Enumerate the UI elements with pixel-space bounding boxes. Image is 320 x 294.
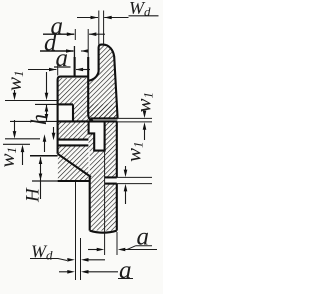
dimension w1 right1: extension y118.4: [118, 117, 152, 119]
hatch right column upper segment: [105, 122, 117, 177]
dimension Wd bottom: left arrowhead: [67, 258, 75, 262]
outline: upper part bottom edge y118.4: [91, 117, 118, 119]
extension x75.5 downward: [75, 182, 77, 280]
outline: long joint line y121.4: [58, 120, 118, 122]
dimension Wd top: dim line: [77, 17, 98, 19]
outline: groove top edge y104: [58, 103, 73, 105]
dimension d: extension x74.3: [73, 46, 75, 57]
dimension w1 right1: extension y121.9: [117, 121, 152, 123]
dimension w1 left2: lower up-arrow at x22.5: [21, 145, 25, 153]
outline: right gap bottom edge y183.6: [105, 183, 117, 185]
dimension a row3: left tick: [57, 64, 59, 76]
dimension w1 right2: lower up arrow: [124, 184, 128, 192]
dimension a bottom2: right arrowhead with tail: [81, 270, 89, 274]
dimension w1 left2: upper down-arrow at x14.5: [14, 120, 16, 132]
extension x104.6 downward: [104, 151, 106, 255]
svg-text:h: h: [26, 114, 51, 125]
dimension d: dim line: [40, 50, 74, 52]
outline: slope chamfer: [58, 154, 91, 177]
outline: step edge y139.6: [58, 139, 89, 141]
dimension a bottom1: dim line: [88, 249, 98, 251]
hatch lower block above slope: [58, 145, 89, 181]
hatch mid block of lower part: [58, 122, 88, 140]
outline: thin wall at x88: [88, 57, 93, 121]
dimension w1 left2: inner up-arrow at x44.5: [43, 134, 47, 142]
label Wd top underline: [129, 15, 159, 17]
dimension w1 right1: lower up arrow: [143, 122, 147, 130]
dimension w1 left2: extension y144.3: [3, 143, 30, 145]
dimension h: inside arrows at x46.5: [46, 105, 48, 121]
dimension a row3: dim line: [28, 69, 57, 71]
outline: bottom edge y181: [58, 180, 90, 182]
outline: bottom column left edge: [89, 177, 91, 231]
dimension w1 left2: extension y138.8: [5, 138, 40, 140]
outline: right gap top edge y177.4: [105, 176, 117, 178]
label a bottom1 leader: [127, 246, 136, 250]
hatch right column lower segment: [105, 184, 117, 231]
svg-text:Wd: Wd: [31, 242, 53, 263]
extension line x88 above wall: [87, 29, 89, 57]
svg-text:w1: w1: [122, 141, 146, 162]
outline: right column edge lower: [116, 184, 118, 231]
dimension Wd top: left arrowhead: [91, 16, 99, 20]
svg-text:w1: w1: [2, 70, 26, 91]
extension of y104.4 to the left: [35, 103, 58, 105]
dimension a row1: left arrowhead: [67, 32, 75, 36]
dimension H: dim line with inside arrows: [40, 157, 42, 199]
outline: groove right wall x73: [72, 104, 74, 121]
hatch upper part lower-left lobe: [73, 104, 88, 121]
dimension a bottom2: dim line: [59, 271, 68, 273]
dimension Wd top: right extension line: [103, 11, 105, 45]
hatch notch right of mid block: [89, 133, 95, 150]
dimension d: right arrowhead with tail: [81, 49, 89, 53]
dimension w1 right2: upper down arrow: [125, 166, 127, 171]
outline: step edge y145.4: [58, 144, 89, 146]
label Wd bottom underline and leader: [30, 259, 67, 261]
dimension a row1: left tick: [74, 29, 76, 40]
dimension Wd top: left extension line: [98, 11, 100, 45]
hatch bottom column left segment: [90, 151, 105, 231]
dimension d: left arrowhead: [66, 49, 74, 53]
svg-text:a: a: [119, 257, 132, 284]
svg-text:w1: w1: [132, 92, 156, 113]
dimension a bottom2: left arrowhead: [67, 270, 75, 274]
dimension Wd top: right arrowhead: [104, 16, 112, 20]
dimension a row1: dim line: [43, 33, 74, 35]
label a row3 underline: [54, 66, 71, 68]
dimension w1 right2: extension y183.6: [117, 183, 152, 185]
dimension Wd top: right arrow tail: [104, 17, 128, 19]
outline: ledge line y155.8: [30, 155, 58, 157]
outline: bottom arc: [90, 231, 117, 233]
svg-text:w1: w1: [0, 147, 19, 168]
extension x80.5 downward: [80, 238, 82, 280]
label a bottom1 underline: [136, 245, 153, 247]
svg-text:a: a: [56, 45, 69, 72]
svg-text:H: H: [23, 187, 44, 203]
extension x117 downward: [116, 232, 118, 255]
dimension w1 left2: inner down-arrow at x53.5: [53, 127, 55, 134]
extension of y181 to the left: [32, 180, 58, 182]
dimension a row3: left arrowhead: [49, 68, 57, 72]
outline: thin lip wall at x74.6: [74, 57, 76, 77]
dimension Wd bottom: right arrowhead with tail: [81, 258, 89, 262]
svg-text:a: a: [137, 224, 150, 251]
hatch upper-left block of lower part: [58, 78, 88, 104]
outline: top column profile: [88, 45, 117, 119]
dimension a row3: right arrowhead with tail: [76, 68, 84, 72]
dimension w1 left1: label leader arrow: [14, 90, 16, 94]
hatch upper part bottom band: [88, 104, 117, 118]
dimension a row1: right arrowhead with tail: [89, 32, 97, 36]
dimension w1 right1: upper down arrow: [143, 111, 147, 119]
outline: top edge of lower part: [58, 77, 89, 154]
extension line above lip (row2 left tick upper): [74, 46, 76, 57]
outline: pocket below joint: [89, 122, 105, 151]
label a bottom2 underline: [118, 278, 133, 280]
dimension w1 right2: extension y177.4: [117, 176, 152, 178]
extension y121.4 to the left: [10, 120, 58, 122]
outline: right column edge upper: [116, 121, 118, 177]
hatch top column of upper part: [88, 45, 117, 119]
dimension w1 left1: down arrow at x46.5: [46, 72, 48, 94]
dimension w1 left1: upper extension y100.5: [5, 100, 58, 102]
